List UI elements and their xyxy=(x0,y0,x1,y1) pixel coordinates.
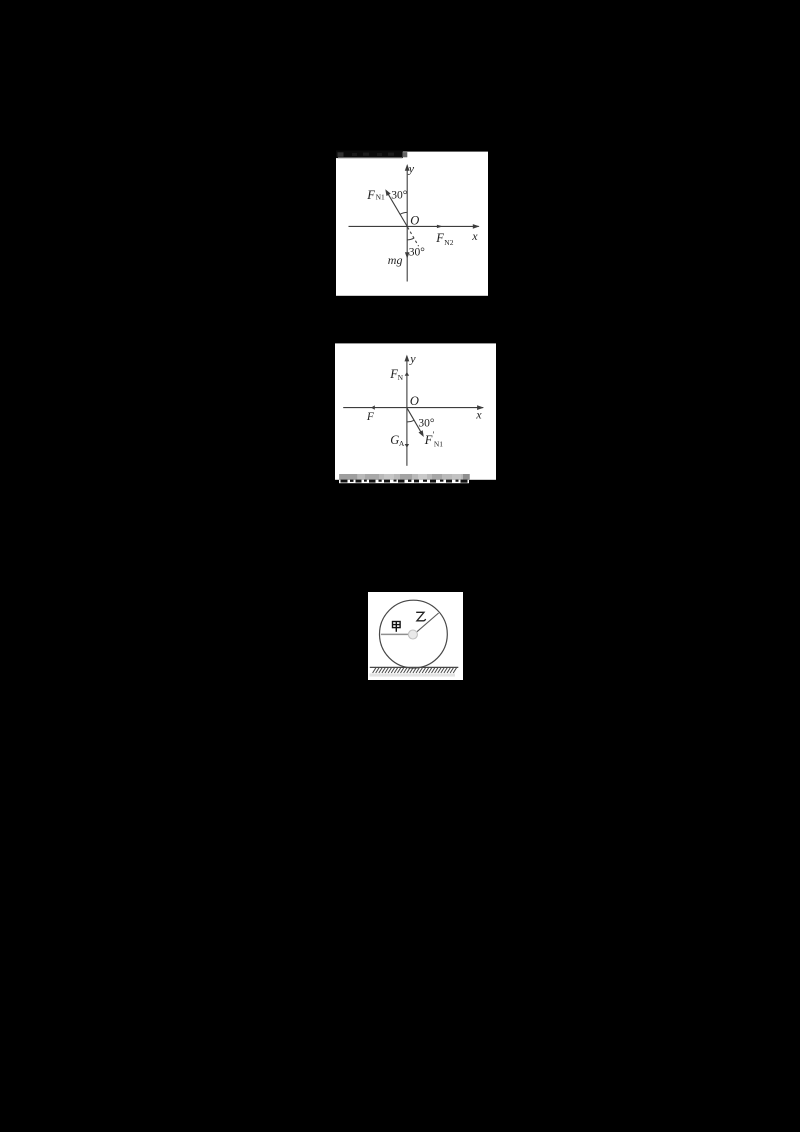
wheel circle xyxy=(380,600,448,668)
hub xyxy=(408,630,417,639)
vector F_N2 arrowhead on x axis xyxy=(437,225,443,228)
vector F_N1 xyxy=(387,192,407,227)
ground line xyxy=(370,666,459,668)
vector mg arrowhead xyxy=(405,252,410,259)
panel background xyxy=(336,152,488,296)
vector F arrowhead xyxy=(371,405,375,409)
svg-text:30°: 30° xyxy=(391,190,408,202)
svg-text:y: y xyxy=(408,162,415,176)
panel 1: force decomposition diagram (F_N1, F_N2, mg) xyxy=(336,150,488,296)
panel background xyxy=(335,343,496,479)
x axis xyxy=(343,407,483,409)
angle arc lower xyxy=(407,238,414,240)
svg-text:F: F xyxy=(424,433,433,447)
spoke jia (horizontal radius) xyxy=(381,633,408,635)
panel background xyxy=(368,592,463,680)
svg-text:30°: 30° xyxy=(409,246,426,258)
gray square at end of bar xyxy=(403,152,408,157)
svg-text:A: A xyxy=(399,439,405,448)
panel 3: wheel on ground with spokes jia and yi xyxy=(368,592,463,681)
svg-text:F: F xyxy=(366,411,375,423)
svg-text:F: F xyxy=(435,231,444,245)
vector G_A arrowhead xyxy=(405,444,409,448)
svg-text:F: F xyxy=(366,188,375,202)
vector F'_N1 xyxy=(407,408,422,434)
vector F_N arrowhead xyxy=(405,372,409,376)
ground hatching xyxy=(373,667,457,672)
redacted text bar xyxy=(336,150,403,158)
svg-text:N2: N2 xyxy=(444,238,453,247)
svg-text:N1: N1 xyxy=(434,440,443,449)
label yi (Chinese character drawn as path) xyxy=(416,612,425,621)
grayed text bar xyxy=(339,474,470,480)
dashed extension line xyxy=(408,227,419,246)
svg-text:O: O xyxy=(410,213,419,227)
svg-text:mg: mg xyxy=(388,253,403,267)
panel 2: force diagram (F_N, F, G_A, F'_N1) xyxy=(335,343,496,484)
angle arc upper xyxy=(400,212,407,214)
svg-text:x: x xyxy=(471,229,478,243)
svg-text:′: ′ xyxy=(433,430,435,440)
y axis xyxy=(406,356,408,466)
cut-off text fragments xyxy=(341,480,468,483)
svg-text:y: y xyxy=(409,351,416,365)
x axis xyxy=(349,225,479,227)
angle arc xyxy=(407,420,414,422)
label jia (Chinese character drawn as path) xyxy=(393,621,401,631)
svg-text:N: N xyxy=(398,373,404,382)
faint scan shadow xyxy=(370,673,456,676)
svg-text:G: G xyxy=(390,433,399,447)
svg-text:O: O xyxy=(410,394,419,408)
svg-text:30°: 30° xyxy=(418,418,435,430)
svg-text:N1: N1 xyxy=(376,193,385,202)
svg-text:x: x xyxy=(475,408,482,422)
spoke yi (diagonal radius) xyxy=(417,613,439,632)
y axis xyxy=(406,166,408,282)
